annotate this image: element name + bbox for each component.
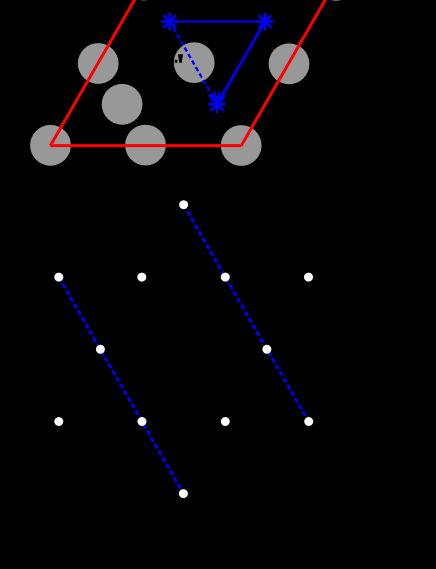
black label fragment (small blob) — [175, 60, 178, 63]
asterisk marker bottom — [208, 96, 225, 113]
lattice dot row2 c4 — [304, 273, 313, 282]
lattice dot row3 c2 — [262, 345, 271, 354]
gray atom bottom middle — [125, 125, 166, 166]
asterisk marker top-right — [256, 13, 273, 30]
right arrowhead — [218, 91, 225, 102]
blue triangle top edge — [170, 21, 265, 23]
lattice dot row4 c4 — [304, 417, 313, 426]
gray atom row2 left — [78, 43, 119, 84]
lattice dot row4 c1 — [54, 417, 63, 426]
lattice dot row2 c2 — [137, 273, 146, 282]
gray adatom at bridge site — [102, 84, 143, 125]
red unit-cell right edge — [241, 0, 336, 146]
lattice dot row4 c3 — [221, 417, 230, 426]
gray atom bottom-right corner — [221, 125, 262, 166]
lattice dot row1 — [179, 200, 188, 209]
lattice dot row4 c2 — [138, 417, 147, 426]
gray atom row2 right — [269, 43, 310, 84]
black label fragment (glyph tip on middle atom) — [178, 54, 183, 63]
lattice dot row2 c1 — [54, 273, 63, 282]
red unit-cell left edge — [50, 0, 145, 146]
lattice dashed chain line B — [59, 277, 184, 494]
lattice dot row2 c3 — [221, 273, 230, 282]
red unit-cell bottom edge — [50, 144, 241, 147]
blue triangle left edge (dashed arrow) — [170, 22, 216, 103]
lattice dot row5 — [179, 489, 188, 498]
gray atom bottom-left corner — [30, 125, 71, 166]
gray atom row2 middle — [174, 42, 215, 83]
left arrowhead — [209, 91, 216, 102]
gray atom sliver top-left corner — [123, 0, 164, 1]
asterisk marker top-left — [161, 13, 178, 30]
gray atom sliver top-right corner — [316, 0, 357, 1]
blue triangle right edge (solid arrow) — [218, 22, 265, 103]
lattice dashed chain line A — [184, 205, 309, 422]
lattice dot row3 c1 — [96, 345, 105, 354]
